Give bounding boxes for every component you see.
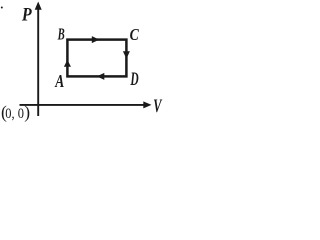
svg-text:): ) [24,102,30,122]
svg-text:V: V [153,96,162,117]
svg-text:D: D [130,70,139,90]
svg-text:B: B [57,25,65,44]
svg-text:0, 0: 0, 0 [5,106,24,122]
svg-text:A: A [55,71,65,91]
svg-text:C: C [130,25,140,44]
svg-text:P: P [21,5,32,26]
